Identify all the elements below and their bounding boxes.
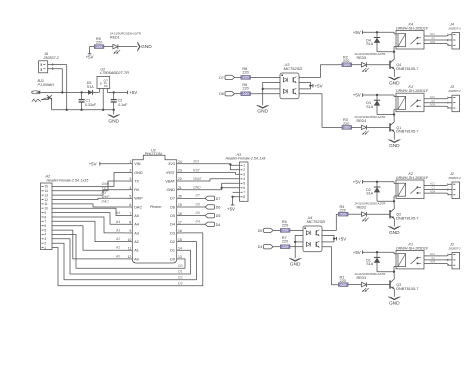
svg-text:220: 220: [282, 245, 288, 249]
svg-text:0.33uF: 0.33uF: [85, 103, 97, 107]
svg-text:1/G: 1/G: [104, 84, 108, 88]
svg-text:11: 11: [128, 246, 132, 250]
junction +5V tie: [309, 84, 311, 86]
junction coil-/collector: [393, 271, 395, 273]
connector H3 Header-Female-2.54_1x8: [226, 153, 266, 202]
transistor Q4 DNBT8105-7: [390, 59, 418, 71]
LED RED3 24-21/SURC/S530-A2/TR: [355, 272, 386, 292]
net RST wire pin23 to H3: [182, 168, 239, 174]
net GND wire H2 to U1: [52, 172, 127, 186]
svg-text:24: 24: [178, 160, 182, 164]
wire U4 cathode2 to gnd drop: [295, 241, 303, 243]
svg-text:7: 7: [129, 212, 131, 216]
wire relay C to J2: [424, 187, 452, 190]
wire U3 out1 to resistor row (up): [299, 65, 342, 78]
wire collector to coil: [393, 201, 395, 208]
svg-text:VIN: VIN: [134, 162, 141, 166]
svg-text:220: 220: [242, 70, 248, 74]
wire BJ1 sleeve to GND rail: [49, 98, 52, 110]
net A2 wire H2 to U1: [52, 221, 127, 241]
svg-text:6: 6: [243, 186, 245, 190]
svg-text:GND: GND: [389, 230, 400, 236]
net DAC wire H2 to U1: [52, 200, 127, 207]
svg-text:A4: A4: [134, 223, 139, 227]
ground GND (Q1): [388, 140, 400, 150]
svg-text:RX: RX: [102, 191, 107, 195]
wire R7 to U4 pin4: [290, 246, 303, 248]
svg-text:D7: D7: [216, 197, 221, 201]
svg-text:D6: D6: [196, 202, 200, 206]
svg-text:RED3: RED3: [357, 276, 367, 280]
svg-text:A3: A3: [134, 231, 139, 235]
svg-text:D4: D4: [216, 223, 221, 227]
transistor Q2 DNBT8105-7: [390, 209, 418, 221]
pin 18 D5: [170, 212, 182, 218]
svg-text:220: 220: [96, 45, 102, 49]
junction J6/+V: [61, 91, 63, 93]
ground GND (Q4): [388, 77, 400, 87]
supply +5V (K1): [353, 250, 363, 255]
svg-text:VBAT: VBAT: [165, 179, 175, 183]
wire R4 to RED2: [348, 213, 362, 215]
svg-text:18: 18: [178, 212, 182, 216]
connector J6: [39, 52, 59, 73]
svg-text:GND: GND: [389, 143, 400, 149]
svg-text:A4: A4: [115, 220, 120, 224]
svg-text:TX: TX: [134, 179, 139, 183]
svg-text:GND: GND: [193, 186, 201, 190]
svg-text:D4: D4: [196, 220, 200, 224]
wire relay C to J1: [424, 257, 452, 260]
svg-text:A1: A1: [134, 249, 139, 253]
svg-text:220: 220: [282, 229, 288, 233]
svg-text:13: 13: [178, 255, 182, 259]
wire relay NO to J4: [424, 41, 452, 46]
svg-text:5: 5: [243, 182, 245, 186]
pin 7 A5: [127, 212, 139, 218]
svg-text:e: e: [100, 82, 102, 86]
svg-text:GND: GND: [290, 262, 301, 268]
svg-text:0.1uF: 0.1uF: [118, 103, 128, 107]
svg-text:220: 220: [340, 212, 346, 216]
svg-text:1: 1: [243, 164, 245, 168]
svg-text:12: 12: [128, 255, 132, 259]
wire D3 to coil bottom: [377, 114, 394, 116]
wire RED4 to Q1 base: [367, 126, 390, 128]
svg-text:!RST: !RST: [166, 171, 175, 175]
wire J6 pin2 to +V node: [48, 67, 63, 92]
svg-text:A0: A0: [115, 254, 120, 258]
svg-text:D3: D3: [178, 282, 182, 286]
net flag D7 (output): [182, 194, 220, 201]
svg-text:DAC: DAC: [102, 200, 110, 204]
svg-text:S1A: S1A: [366, 192, 373, 196]
supply +5V (LED indicator): [86, 47, 95, 60]
pin 22 VBAT: [165, 177, 182, 183]
svg-text:282837-2: 282837-2: [448, 246, 462, 250]
svg-text:220: 220: [243, 76, 249, 80]
flyback diode D3 S1A: [366, 95, 380, 115]
resistor R4 220: [339, 205, 349, 216]
svg-text:3V3: 3V3: [168, 162, 175, 166]
svg-text:GND: GND: [167, 188, 176, 192]
pin 12 A0: [127, 255, 139, 261]
resistor R5 220: [280, 220, 290, 233]
wire relay NC to J3: [424, 96, 452, 99]
svg-text:20: 20: [178, 195, 182, 199]
svg-text:D5: D5: [216, 214, 221, 218]
connector H2 Header-Female-2.54_1x15: [41, 175, 89, 250]
svg-text:9: 9: [129, 229, 131, 233]
connector J1 282837-2: [447, 242, 461, 269]
ground GND (U3): [257, 105, 269, 114]
wire +5V output: [107, 91, 127, 93]
junction +5V tie: [333, 237, 335, 239]
svg-text:S1A: S1A: [366, 42, 373, 46]
relay K2 ORWH-SH-105D1F: [394, 172, 429, 201]
svg-text:2: 2: [129, 169, 131, 173]
svg-text:D5: D5: [170, 214, 175, 218]
wire relay NO to J1: [424, 261, 452, 266]
svg-text:14: 14: [178, 246, 182, 250]
svg-text:C2: C2: [118, 98, 123, 102]
svg-text:D3: D3: [170, 231, 175, 235]
flyback diode D2 S1A: [366, 182, 380, 202]
wire +5V to relay coil: [363, 32, 394, 34]
resistor R2 220: [342, 56, 352, 67]
svg-text:RED4: RED4: [357, 119, 367, 123]
junction coil-/collector: [393, 113, 395, 115]
connector J3 282837-2: [447, 85, 461, 112]
pin 5 WKP: [127, 195, 144, 201]
supply +5V (H3): [227, 192, 240, 211]
svg-text:D5: D5: [196, 211, 200, 215]
svg-text:DNBT8105-7: DNBT8105-7: [396, 67, 418, 71]
junction coil-/collector: [393, 200, 395, 202]
svg-text:S1A: S1A: [87, 85, 94, 89]
junction U2 GND / rail: [102, 109, 104, 111]
wire D2 to coil bottom: [377, 200, 394, 202]
svg-text:D6: D6: [219, 92, 224, 96]
svg-text:4: 4: [243, 177, 245, 181]
wire U4 collector1 to +5V: [322, 235, 334, 238]
junction C2/+5V: [113, 91, 115, 93]
capacitor C2 0.1uF: [111, 92, 128, 109]
svg-text:A0: A0: [134, 257, 139, 261]
junction D3/+5V: [376, 94, 378, 96]
wire relay C to J3: [424, 100, 452, 103]
svg-text:GND: GND: [389, 300, 400, 306]
svg-text:ORWH-SH-105D1F: ORWH-SH-105D1F: [396, 246, 429, 250]
resistor R8 220: [241, 67, 251, 80]
LED RED5 24-21/SURC/S530-A2/TR: [355, 52, 386, 72]
net A3 wire H2 to U1: [52, 217, 127, 233]
svg-text:D5: D5: [258, 229, 263, 233]
supply +5V (regulator output): [128, 90, 138, 95]
svg-text:DNBT8105-7: DNBT8105-7: [396, 216, 418, 220]
resistor R3 220: [342, 118, 352, 129]
svg-text:RX: RX: [134, 188, 140, 192]
wire U3 collector2 to +5V: [299, 86, 310, 89]
wire collector to coil: [393, 272, 395, 279]
pin 15 D2: [170, 238, 182, 244]
pin 19 D6: [170, 203, 182, 209]
net flag D4 (input): [258, 245, 273, 250]
svg-text:MCT62SD: MCT62SD: [307, 219, 326, 224]
svg-text:+5V: +5V: [353, 30, 361, 35]
flyback diode D1 S1A: [366, 252, 380, 272]
wire R5 to U4 pin1: [290, 229, 303, 231]
wire R9 to RED1: [104, 46, 113, 48]
LED RED2 24-21/SURC/S530-A2/TR: [355, 202, 386, 222]
svg-text:DNBT8105-7: DNBT8105-7: [396, 287, 418, 291]
pin 16 D3: [170, 229, 182, 235]
wire RED3 to Q3 base: [367, 284, 390, 286]
svg-text:RED5: RED5: [357, 56, 367, 60]
svg-text:282837-2: 282837-2: [43, 56, 59, 60]
svg-text:+5V: +5V: [353, 93, 361, 98]
net VBAT wire pin22 to H3: [182, 177, 239, 181]
wire R6 to U3 pin4: [250, 93, 280, 95]
transistor Q1 DNBT8105-7: [390, 122, 418, 134]
pin 2 GND: [127, 169, 143, 175]
LED RED4 24-21/SURC/S530-A2/TR: [355, 115, 386, 135]
pin 3 TX: [127, 177, 140, 183]
svg-text:+5V: +5V: [315, 83, 323, 88]
svg-text:19: 19: [178, 203, 182, 207]
junction 3V3 split: [229, 163, 231, 165]
svg-text:D2: D2: [178, 276, 182, 280]
svg-text:RED1: RED1: [110, 36, 120, 40]
barrel jack BJ1 PJ-059AH: [32, 79, 55, 102]
svg-text:D0: D0: [178, 264, 182, 268]
wire U4 out2 to resistor row (down): [322, 247, 339, 285]
relay K3 ORWH-SH-105D1F: [394, 85, 429, 114]
pin 20 D7: [170, 195, 182, 201]
svg-text:S1A: S1A: [366, 262, 373, 266]
svg-text:S1A: S1A: [366, 105, 373, 109]
svg-text:220: 220: [344, 63, 350, 67]
svg-text:7: 7: [243, 191, 245, 195]
svg-text:220: 220: [282, 240, 288, 244]
svg-text:D1: D1: [178, 270, 182, 274]
supply +5V (K3): [353, 93, 363, 98]
net flag D5 (output): [182, 211, 220, 218]
wire U3 cathode2 to gnd drop: [263, 88, 280, 90]
svg-text:17: 17: [178, 220, 182, 224]
svg-text:A2: A2: [134, 240, 139, 244]
svg-text:220: 220: [242, 87, 248, 91]
transistor Q3 DNBT8105-7: [390, 279, 418, 291]
svg-text:+5V: +5V: [89, 161, 97, 166]
pin 24 3V3: [168, 160, 182, 166]
svg-text:220: 220: [340, 283, 346, 287]
pin 8 A4: [127, 220, 139, 226]
svg-text:5: 5: [129, 195, 131, 199]
wire D7 flag to R8: [235, 76, 241, 78]
svg-text:8: 8: [243, 195, 245, 199]
svg-text:23: 23: [178, 169, 182, 173]
wire relay NC to J2: [424, 183, 452, 186]
relay K1 ORWH-SH-105D1F: [394, 242, 429, 271]
wire +V main line: [40, 91, 89, 93]
resistor R1 220: [339, 275, 349, 286]
wire relay C to J4: [424, 37, 452, 40]
svg-text:4: 4: [129, 186, 131, 190]
optocoupler U3 MCT62SD: [280, 63, 302, 99]
svg-text:15: 15: [178, 238, 182, 242]
net flag D5 (input): [258, 228, 273, 233]
connector J2 282837-2: [447, 172, 461, 199]
svg-text:+5V: +5V: [338, 236, 346, 241]
pin 17 D4: [170, 220, 182, 226]
svg-text:2: 2: [243, 168, 245, 172]
net RX wire H2 to U1: [52, 190, 127, 195]
svg-text:D2: D2: [170, 240, 175, 244]
wire U4 collector2 to +5V: [322, 239, 334, 242]
supply +5V (VIN): [89, 161, 127, 166]
svg-text:8: 8: [129, 220, 131, 224]
wire R2 to RED5: [352, 64, 362, 66]
svg-text:+5V: +5V: [129, 90, 137, 95]
svg-text:+5V: +5V: [227, 206, 235, 211]
wire +5V to relay coil: [363, 252, 394, 254]
wire R1 to RED3: [348, 284, 362, 286]
net D1 wire H2 to U1 (bundle): [52, 239, 191, 274]
wire D1 to coil bottom: [377, 271, 394, 273]
svg-text:GND: GND: [134, 171, 143, 175]
svg-text:DNBT8105-7: DNBT8105-7: [396, 130, 418, 134]
supply +5V (K2): [353, 179, 363, 184]
net flag D4 (output): [182, 220, 220, 227]
flyback diode D4 S1A: [366, 32, 380, 52]
junction D2/+5V: [376, 181, 378, 183]
pin 6 DAC: [127, 203, 143, 209]
wire D6 flag to R6: [235, 93, 241, 95]
svg-text:D0: D0: [170, 257, 175, 261]
pin 9 A3: [127, 229, 139, 235]
pin 1 VIN: [127, 160, 141, 166]
wire D5 flag to R5: [273, 229, 280, 231]
svg-text:16: 16: [178, 229, 182, 233]
ground GND (Q2): [388, 226, 400, 236]
wire D4 to coil bottom: [377, 51, 394, 53]
svg-text:A1: A1: [115, 246, 120, 250]
svg-text:3V3: 3V3: [193, 160, 199, 164]
svg-text:D4: D4: [170, 223, 175, 227]
wire emitter to ground: [393, 289, 395, 297]
svg-text:D6: D6: [170, 205, 175, 209]
net D0 wire H2 to U1 (bundle): [52, 234, 185, 268]
svg-text:C1: C1: [86, 98, 91, 102]
resistor R9 220: [94, 37, 104, 49]
wire U4 out1 to resistor row (up): [322, 214, 339, 230]
junction D1/+5V: [376, 251, 378, 253]
svg-text:22: 22: [178, 177, 182, 181]
wire J6 pin1 to GND rail: [48, 63, 67, 110]
net D2 wire H2 to U1 (bundle): [52, 242, 197, 280]
svg-text:GND: GND: [389, 81, 400, 87]
net flag D6 (output): [182, 202, 220, 209]
junction cathodes: [294, 241, 296, 243]
svg-text:1: 1: [44, 246, 46, 250]
svg-text:VBAT: VBAT: [193, 177, 203, 181]
supply +5V (K4): [353, 30, 363, 35]
wire RED1 to GND: [119, 46, 138, 48]
pin 23 !RST: [166, 169, 182, 175]
svg-text:GND: GND: [257, 109, 268, 115]
svg-text:Photon: Photon: [150, 205, 161, 209]
svg-text:220: 220: [243, 92, 249, 96]
ground GND (U4): [289, 258, 301, 267]
net 3V3 wire pin24 to H3: [182, 160, 239, 170]
wire R3 to RED4: [352, 126, 362, 128]
svg-text:A5: A5: [134, 214, 139, 218]
svg-text:6: 6: [129, 203, 131, 207]
svg-text:282837-2: 282837-2: [448, 89, 462, 93]
svg-text:10: 10: [128, 238, 132, 242]
net TX wire H2 to U1: [52, 181, 127, 191]
junction C1/GND rail: [80, 109, 82, 111]
ground GND (power): [108, 115, 120, 125]
wire collector to coil: [393, 52, 395, 59]
svg-text:282837-2: 282837-2: [448, 27, 462, 31]
svg-text:D7: D7: [170, 197, 175, 201]
svg-text:Header-Female-2.54_1x15: Header-Female-2.54_1x15: [47, 178, 89, 182]
junction C2/GND rail: [113, 109, 115, 111]
LED RED1 24-21/SURC/S530-A2/TR: [110, 32, 141, 54]
svg-text:3: 3: [129, 177, 131, 181]
svg-text:WKP: WKP: [134, 197, 143, 201]
junction D4/+5V: [376, 31, 378, 33]
svg-text:+5V: +5V: [86, 54, 94, 59]
supply +5V (U4): [334, 236, 346, 241]
net A1 wire H2 to U1: [52, 226, 127, 251]
net flag D7 (input): [219, 75, 234, 80]
wire U3 out2 to resistor row (down): [299, 94, 342, 128]
resistor R7 220: [280, 236, 290, 249]
wire emitter to ground: [393, 219, 395, 227]
net A0 wire H2 to U1: [52, 230, 127, 259]
diode D5 S1A: [87, 81, 94, 95]
wire emitter to ground: [393, 69, 395, 77]
net WKP wire H2 to U1: [52, 195, 127, 199]
net A4 wire H2 to U1: [52, 213, 127, 225]
svg-text:ORWH-SH-105D1F: ORWH-SH-105D1F: [396, 27, 429, 31]
svg-text:RST: RST: [193, 168, 201, 172]
svg-text:21: 21: [178, 186, 182, 190]
junction J6 drop / rail: [66, 109, 68, 111]
supply +5V (U3): [310, 83, 322, 88]
wire collector to coil: [393, 115, 395, 122]
wire U3 collector1 to +5V: [299, 82, 310, 85]
wire relay NC to J1: [424, 253, 452, 256]
net A5 wire H2 to U1: [52, 208, 127, 215]
svg-text:ORWH-SH-105D1F: ORWH-SH-105D1F: [396, 176, 429, 180]
net GND wire pin21 to H3: [182, 183, 239, 189]
svg-text:D1: D1: [170, 249, 175, 253]
svg-text:GND: GND: [108, 118, 119, 124]
junction coil-/collector: [393, 51, 395, 53]
svg-text:D7: D7: [196, 194, 200, 198]
svg-text:D7: D7: [219, 76, 224, 80]
svg-text:PJ-059AH: PJ-059AH: [38, 83, 55, 87]
connector J4 282837-2: [447, 23, 461, 50]
resistor R6 220: [241, 83, 251, 96]
ground GND (Q3): [388, 297, 400, 307]
pin 21 GND: [167, 186, 183, 192]
wire relay NC to J4: [424, 33, 452, 36]
